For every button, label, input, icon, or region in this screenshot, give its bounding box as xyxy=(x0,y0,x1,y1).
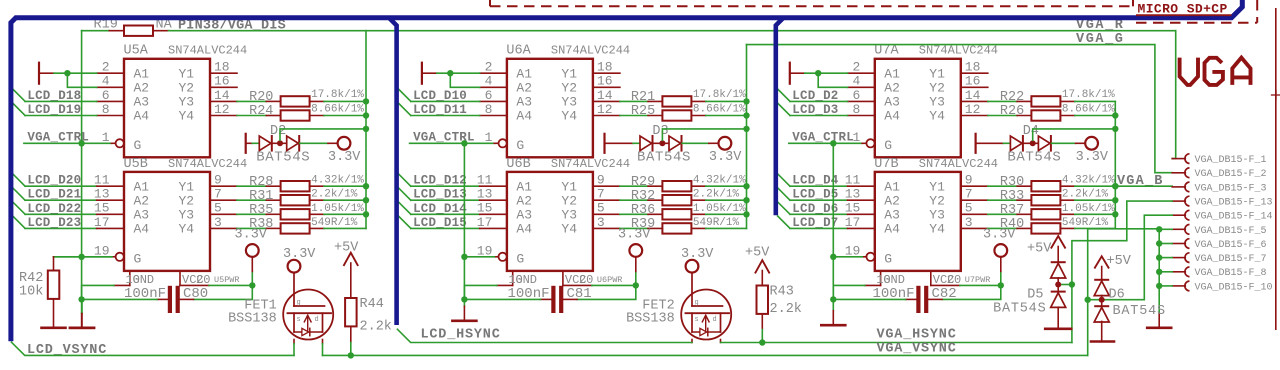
svg-text:2.2k: 2.2k xyxy=(360,320,392,335)
svg-text:A2: A2 xyxy=(516,81,532,96)
input tie bar symbol at U6A pin 2 xyxy=(421,63,423,84)
svg-text:13: 13 xyxy=(477,187,493,202)
wire pin2 tie xyxy=(40,72,54,74)
junction xyxy=(998,282,1004,288)
svg-text:R36: R36 xyxy=(631,203,655,218)
pin 4 stub U5A xyxy=(97,86,124,88)
pin 17 stub U5B xyxy=(97,227,124,229)
svg-text:A3: A3 xyxy=(516,95,532,110)
pin 13 stub U5B xyxy=(97,199,124,201)
resistor R40 xyxy=(1031,223,1060,233)
capacitor C82 100nF xyxy=(906,298,918,300)
svg-text:A3: A3 xyxy=(884,208,900,223)
wire VGA_R down right side xyxy=(1172,31,1176,159)
svg-text:Y1: Y1 xyxy=(561,179,577,194)
port VGA_DB15-F_7 xyxy=(1172,257,1185,259)
svg-text:18: 18 xyxy=(597,60,613,75)
wire D3 row xyxy=(606,142,634,144)
pin 6 stub U5A xyxy=(97,100,124,102)
svg-text:549R/1%: 549R/1% xyxy=(311,217,358,229)
svg-text:3.3V: 3.3V xyxy=(1076,150,1109,165)
wire R38 to output node xyxy=(310,227,324,229)
wire xyxy=(272,142,286,144)
diode D3 second half xyxy=(669,136,681,151)
wire D3 to 3.3V xyxy=(682,142,709,144)
svg-text:VGA_DB15-F_2: VGA_DB15-F_2 xyxy=(1195,169,1267,180)
wire pin 20 to 3.3V node xyxy=(563,284,592,286)
svg-text:549R/1%: 549R/1% xyxy=(1062,217,1109,229)
wire D6 link to F_14 vertical xyxy=(1088,215,1173,300)
wire stub to port row 8 xyxy=(1159,271,1172,273)
wire xyxy=(1023,142,1038,144)
svg-text:1.05k/1%: 1.05k/1% xyxy=(1062,203,1115,215)
input tie bar at diode D3 xyxy=(603,134,605,153)
junction xyxy=(1112,183,1118,189)
pin 16 stub U7A xyxy=(961,86,988,88)
ground symbol xyxy=(821,324,845,327)
svg-text:14: 14 xyxy=(214,88,230,103)
svg-text:R24: R24 xyxy=(249,104,273,119)
pin 12 stub U6A xyxy=(593,115,620,117)
svg-text:BSS138: BSS138 xyxy=(228,311,277,326)
wire pin 14 to resistor R20 xyxy=(237,100,266,102)
input tie bar symbol at U7A pin 2 xyxy=(789,63,791,84)
wire LCD_HSYNC from bus xyxy=(397,329,692,342)
bus entry + wire LCD_D11 xyxy=(398,103,410,115)
op-amp-style buffer IC U7A SN74ALVC244 (gate A) xyxy=(875,59,961,158)
diode D2 first half xyxy=(259,136,271,151)
svg-text:Y2: Y2 xyxy=(179,81,195,96)
junction xyxy=(1112,112,1118,118)
svg-text:BSS138: BSS138 xyxy=(626,311,675,326)
ground symbol under D5 xyxy=(1045,327,1071,330)
ground symbol under R42 xyxy=(42,326,66,329)
svg-text:A4: A4 xyxy=(516,222,532,237)
wire R44 bottom xyxy=(350,326,352,342)
wire LCD_VSYNC from bus xyxy=(12,342,294,355)
port VGA_DB15-F_6 xyxy=(1172,243,1185,245)
wire D4 center up to output node xyxy=(1033,129,1116,140)
capacitor C81 100nF xyxy=(541,298,553,300)
wire tie to pin 4 xyxy=(67,73,96,87)
wire pin 5 to resistor R37 xyxy=(988,213,1017,215)
svg-text:Y1: Y1 xyxy=(561,66,577,81)
bus entry + wire LCD_D23 xyxy=(13,216,25,228)
wire pin 10 to ground node xyxy=(114,284,130,286)
svg-text:G: G xyxy=(134,138,142,153)
wire pin 19 xyxy=(494,256,498,258)
svg-text:U5B: U5B xyxy=(124,157,148,172)
svg-text:16: 16 xyxy=(214,74,230,89)
supply 3.3V circle above cap node xyxy=(635,271,637,283)
wire xyxy=(653,142,669,144)
wire VGA_HSYNC row xyxy=(721,342,1072,344)
bus entry + wire LCD_D18 xyxy=(13,89,25,101)
wire FET2 drain xyxy=(720,340,722,343)
svg-text:R20: R20 xyxy=(249,90,273,105)
wire pin2 tie xyxy=(791,72,805,74)
svg-text:A4: A4 xyxy=(884,109,900,124)
svg-text:15: 15 xyxy=(94,201,110,216)
pin 9 stub U6B xyxy=(593,185,620,187)
resistor R28 xyxy=(281,181,310,191)
svg-text:8.66k/1%: 8.66k/1% xyxy=(693,103,746,115)
bus entry + wire LCD_D10 xyxy=(398,89,410,101)
svg-text:VGA_DB15-F_10: VGA_DB15-F_10 xyxy=(1195,282,1273,293)
pin 6 stub U7A xyxy=(848,100,875,102)
svg-text:100nF: 100nF xyxy=(872,286,914,302)
wire tie to pin 4 xyxy=(818,73,847,87)
junction xyxy=(830,254,836,260)
svg-text:2: 2 xyxy=(852,60,860,75)
wire VGA_G row xyxy=(747,45,1173,173)
junction xyxy=(363,98,369,104)
svg-text:18: 18 xyxy=(214,60,230,75)
bus entry + wire LCD_D3 xyxy=(778,103,790,115)
pin 4 stub U6A xyxy=(480,86,507,88)
wire R19 left to VGA_CTRL vertical xyxy=(81,30,83,32)
diode D3 first half xyxy=(640,136,652,151)
ground symbol xyxy=(452,319,476,322)
svg-text:8: 8 xyxy=(485,102,493,117)
junction VSYNC/D6 xyxy=(1085,297,1091,303)
bus entry + wire LCD_D6 xyxy=(778,202,790,214)
svg-text:9: 9 xyxy=(597,173,605,188)
svg-text:R26: R26 xyxy=(1000,104,1024,119)
svg-text:3.3V: 3.3V xyxy=(681,247,714,262)
resistor R36 xyxy=(662,209,691,219)
svg-text:14: 14 xyxy=(965,88,981,103)
buffer IC U6B SN74ALVC244 (gate B) xyxy=(507,172,593,271)
wire stub to port row 9 xyxy=(1159,285,1172,287)
svg-text:11: 11 xyxy=(477,173,493,188)
svg-text:2: 2 xyxy=(102,60,110,75)
bus divider 2 xyxy=(389,18,396,325)
svg-text:17: 17 xyxy=(477,215,493,230)
svg-text:G: G xyxy=(516,138,524,153)
resistor R31 xyxy=(281,195,310,205)
wire pin 10 to ground node xyxy=(865,284,881,286)
wire R32 to output node xyxy=(691,199,705,201)
junction ladder xyxy=(1156,254,1162,260)
wire VGA_CTRL to pin 1 xyxy=(789,142,862,144)
junction ladder xyxy=(1156,240,1162,246)
bus entry + wire LCD_D2 xyxy=(778,89,790,101)
junction xyxy=(1112,197,1118,203)
svg-text:17: 17 xyxy=(845,215,861,230)
pin 20 VCC stub U7B xyxy=(930,271,932,286)
svg-text:2: 2 xyxy=(485,60,493,75)
diode D2 second half xyxy=(287,136,299,151)
pin 4 stub U7A xyxy=(848,86,875,88)
svg-text:R35: R35 xyxy=(249,203,273,218)
svg-text:g: g xyxy=(297,299,301,307)
buffer IC U5B SN74ALVC244 (gate B) xyxy=(124,172,210,271)
svg-text:3: 3 xyxy=(965,215,973,230)
svg-text:8: 8 xyxy=(852,102,860,117)
port VGA_DB15-F_8 xyxy=(1172,271,1185,273)
svg-text:VGA_DB15-F_8: VGA_DB15-F_8 xyxy=(1195,268,1267,279)
wire pin 12 to resistor R25 xyxy=(620,115,648,117)
svg-text:D4: D4 xyxy=(1023,124,1039,139)
ground symbol under D6 xyxy=(1091,340,1114,343)
junction xyxy=(1112,211,1118,217)
wire R35 to output node xyxy=(310,213,324,215)
port VGA_DB15-F_13 xyxy=(1172,200,1185,202)
junction xyxy=(249,282,255,288)
svg-text:2.2k/1%: 2.2k/1% xyxy=(693,189,740,201)
svg-text:4: 4 xyxy=(485,74,493,89)
svg-text:SN74ALVC244: SN74ALVC244 xyxy=(551,44,630,58)
wire stub to port row 6 xyxy=(1159,243,1172,245)
svg-text:5: 5 xyxy=(214,201,222,216)
svg-text:+5V: +5V xyxy=(1027,242,1052,257)
pin 11 stub U5B xyxy=(97,185,124,187)
svg-text:8.66k/1%: 8.66k/1% xyxy=(1062,103,1115,115)
wire VGA_CTRL/GND vertical xyxy=(463,143,465,299)
wire pin 7 to resistor R31 xyxy=(237,199,266,201)
svg-text:13: 13 xyxy=(94,187,110,202)
svg-text:12: 12 xyxy=(214,102,230,117)
resistor R35 xyxy=(281,209,310,219)
svg-text:9: 9 xyxy=(965,173,973,188)
junction xyxy=(830,140,836,146)
svg-text:U6PWR: U6PWR xyxy=(597,275,623,285)
svg-text:G: G xyxy=(134,251,142,266)
svg-text:A1: A1 xyxy=(884,179,900,194)
pin 5 stub U6B xyxy=(593,213,620,215)
svg-text:VGA_DB15-F_7: VGA_DB15-F_7 xyxy=(1195,254,1267,265)
svg-text:C82: C82 xyxy=(932,286,957,302)
svg-text:R30: R30 xyxy=(1000,175,1024,190)
wire R39 to output node xyxy=(691,227,705,229)
svg-text:G: G xyxy=(884,251,892,266)
svg-text:VGA_VSYNC: VGA_VSYNC xyxy=(877,341,957,356)
resistor R20 xyxy=(281,96,310,106)
svg-text:A2: A2 xyxy=(884,193,900,208)
svg-text:R43: R43 xyxy=(770,285,794,300)
pin 14 stub U5A xyxy=(210,100,237,102)
svg-text:6: 6 xyxy=(102,88,110,103)
pin 1 bubble U5A xyxy=(116,139,124,147)
svg-text:BAT54S: BAT54S xyxy=(256,150,310,166)
pin 13 stub U7B xyxy=(848,199,875,201)
svg-text:549R/1%: 549R/1% xyxy=(693,217,740,229)
junction xyxy=(363,197,369,203)
wire pin 9 to resistor R28 xyxy=(237,185,266,187)
svg-text:2.2k/1%: 2.2k/1% xyxy=(311,189,358,201)
svg-text:12: 12 xyxy=(965,102,981,117)
wire VGA_B row xyxy=(1115,185,1172,187)
pin 8 stub U5A xyxy=(97,115,124,117)
diode D6 BAT54S upper xyxy=(1095,279,1108,281)
svg-text:A2: A2 xyxy=(884,81,900,96)
svg-text:s: s xyxy=(297,316,301,324)
resistor R25 xyxy=(662,110,691,120)
svg-text:U5PWR: U5PWR xyxy=(214,275,240,285)
svg-text:15: 15 xyxy=(845,201,861,216)
wire R31 to output node xyxy=(310,199,324,201)
junction xyxy=(78,296,84,302)
svg-text:C80: C80 xyxy=(183,286,208,302)
junction xyxy=(633,282,639,288)
resistor R29 xyxy=(662,181,691,191)
wire F_5 feed xyxy=(1088,228,1160,230)
svg-text:BAT54S: BAT54S xyxy=(993,302,1046,317)
junction D2 center xyxy=(277,140,283,146)
wire pin 10 to ground node xyxy=(497,284,513,286)
wire D3 center up to output node xyxy=(662,129,746,140)
wire 3.3V node to cap xyxy=(194,285,253,299)
svg-text:R28: R28 xyxy=(249,175,273,190)
wire pin 9 to resistor R29 xyxy=(620,185,648,187)
junction ladder xyxy=(1156,269,1162,275)
svg-text:100nF: 100nF xyxy=(124,286,166,302)
wire pin 12 to resistor R26 xyxy=(988,115,1017,117)
wire 3.3V node to cap xyxy=(577,285,636,299)
wire pin 14 to resistor R21 xyxy=(620,100,648,102)
wire pin 5 to resistor R36 xyxy=(620,213,648,215)
svg-text:4: 4 xyxy=(102,74,110,89)
pin 2 stub U6A xyxy=(480,72,507,74)
svg-text:7: 7 xyxy=(965,187,973,202)
wire pin 19 xyxy=(111,256,115,258)
input tie bar at diode D2 xyxy=(245,134,247,153)
resistor R43 2.2k xyxy=(757,286,769,314)
wire HSYNC to F_13 xyxy=(1072,201,1172,342)
svg-text:Y1: Y1 xyxy=(929,179,945,194)
wire R30 to output node xyxy=(1060,185,1074,187)
port VGA_DB15-F_5 xyxy=(1172,228,1185,230)
svg-text:3: 3 xyxy=(214,215,222,230)
svg-text:Y3: Y3 xyxy=(929,95,945,110)
wire VSYNC to F_14 via D6 xyxy=(1087,229,1089,356)
svg-text:Y1: Y1 xyxy=(929,66,945,81)
wire R24 to output node xyxy=(310,115,324,117)
svg-text:A3: A3 xyxy=(884,95,900,110)
junction xyxy=(78,140,84,146)
svg-text:3.3V: 3.3V xyxy=(328,150,361,165)
svg-text:D2: D2 xyxy=(270,124,286,139)
wire pin 3 to resistor R40 xyxy=(988,227,1017,229)
svg-text:SN74ALVC244: SN74ALVC244 xyxy=(168,157,247,171)
svg-text:A3: A3 xyxy=(516,208,532,223)
junction xyxy=(1112,126,1118,132)
resistor R24 xyxy=(281,110,310,120)
svg-text:Y3: Y3 xyxy=(561,208,577,223)
resistor R38 xyxy=(281,223,310,233)
junction xyxy=(447,70,453,76)
pin 16 stub U6A xyxy=(593,86,620,88)
svg-text:3: 3 xyxy=(597,215,605,230)
svg-text:Y4: Y4 xyxy=(561,222,577,237)
svg-text:8: 8 xyxy=(102,102,110,117)
wire R25 to output node xyxy=(691,115,705,117)
wire pin2 tie xyxy=(423,72,437,74)
wire VGA_CTRL to pin 1 xyxy=(410,142,495,144)
pin 19 bubble U5B xyxy=(116,253,124,261)
junction xyxy=(743,183,749,189)
wire FET1 source xyxy=(293,340,295,344)
pin 5 stub U7B xyxy=(961,213,988,215)
wire VGA_CTRL/GND vertical xyxy=(81,31,83,300)
bus entry + wire LCD_D12 xyxy=(398,174,410,186)
pin 3 stub U7B xyxy=(961,227,988,229)
svg-text:9: 9 xyxy=(214,173,222,188)
wire 3.3V node to cap xyxy=(942,285,1001,299)
wire pin 7 to resistor R33 xyxy=(988,199,1017,201)
junction xyxy=(461,296,467,302)
svg-text:3.3V: 3.3V xyxy=(283,247,316,262)
wire R33 to output node xyxy=(1060,199,1074,201)
svg-text:R25: R25 xyxy=(631,104,655,119)
pin 9 stub U5B xyxy=(210,185,237,187)
port VGA_DB15-F_14 xyxy=(1172,214,1185,216)
diode D6 BAT54S lower xyxy=(1095,305,1108,307)
junction D5 middle xyxy=(1057,278,1059,292)
supply 3.3V circle xyxy=(719,137,732,150)
svg-text:G: G xyxy=(884,138,892,153)
svg-text:2.2k: 2.2k xyxy=(770,302,802,317)
wire pin 9 to resistor R30 xyxy=(988,185,1017,187)
pin 3 stub U5B xyxy=(210,227,237,229)
resistor R32 xyxy=(662,195,691,205)
ground symbol ladder xyxy=(1147,326,1171,329)
svg-text:R29: R29 xyxy=(631,175,655,190)
svg-text:VGA_DB15-F_6: VGA_DB15-F_6 xyxy=(1195,240,1267,251)
wire R28 to output node xyxy=(310,185,324,187)
junction xyxy=(363,211,369,217)
pin 3 stub U6B xyxy=(593,227,620,229)
ground ladder vertical F_5..F_10 xyxy=(1158,229,1160,314)
svg-text:VGA_DB15-F_14: VGA_DB15-F_14 xyxy=(1195,212,1273,223)
node vertical output net block 3 xyxy=(1114,101,1116,228)
wire R21 to output node xyxy=(691,100,705,102)
pin 8 stub U7A xyxy=(848,115,875,117)
bus entry + wire LCD_D19 xyxy=(13,103,25,115)
svg-text:A1: A1 xyxy=(516,179,532,194)
pin 20 VCC stub U5B xyxy=(179,271,181,286)
svg-text:R37: R37 xyxy=(1000,203,1024,218)
wire R22 to output node xyxy=(1060,100,1074,102)
junction xyxy=(461,140,467,146)
svg-text:R31: R31 xyxy=(249,189,273,204)
svg-text:5: 5 xyxy=(965,201,973,216)
svg-text:C81: C81 xyxy=(567,286,592,302)
svg-text:SN74ALVC244: SN74ALVC244 xyxy=(919,157,998,171)
module box MICRO SD+CP dashed outline xyxy=(490,5,1133,7)
transistor FET2 BSS138 xyxy=(681,290,731,340)
svg-text:A4: A4 xyxy=(884,222,900,237)
resistor R26 xyxy=(1031,110,1060,120)
pin 7 stub U6B xyxy=(593,199,620,201)
svg-text:D6: D6 xyxy=(1109,288,1125,303)
port VGA_DB15-F_2 xyxy=(1172,172,1185,174)
pin 10 GND stub U6B xyxy=(512,271,514,286)
svg-text:16: 16 xyxy=(597,74,613,89)
junction xyxy=(743,98,749,104)
svg-text:100nF: 100nF xyxy=(507,286,549,302)
svg-text:A3: A3 xyxy=(134,95,150,110)
supply 3.3V at FET1 gate xyxy=(288,260,301,273)
svg-text:17.8k/1%: 17.8k/1% xyxy=(311,89,364,101)
svg-text:Y2: Y2 xyxy=(561,81,577,96)
junction xyxy=(363,183,369,189)
input tie bar at diode D4 xyxy=(974,134,976,153)
svg-text:A4: A4 xyxy=(134,222,150,237)
resistor R30 xyxy=(1031,181,1060,191)
sheet marker cross right edge xyxy=(1272,94,1280,96)
